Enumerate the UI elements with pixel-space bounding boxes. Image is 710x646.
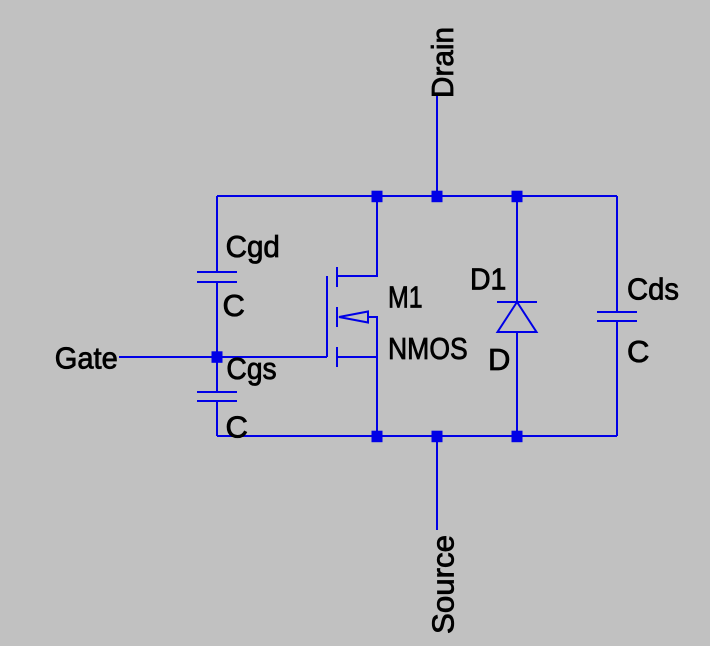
channel segment source	[336, 347, 338, 367]
node bottom rail / diode anode	[512, 431, 523, 443]
wire source port lead	[436, 436, 438, 530]
capacitor Cds	[597, 196, 637, 436]
svg-text:NMOS: NMOS	[388, 331, 468, 366]
source lead	[337, 357, 377, 436]
node top rail / drain port	[432, 191, 443, 203]
node bottom rail / mosfet source	[372, 431, 383, 443]
svg-text:Cgs: Cgs	[226, 351, 276, 386]
wire top rail (drain net)	[217, 195, 617, 197]
upper wire	[616, 196, 618, 312]
body arrow	[339, 312, 368, 323]
svg-text:Gate: Gate	[55, 340, 118, 375]
wire left branch middle: Cgd to Cgs through gate junction	[216, 282, 218, 392]
capacitor Cgs	[197, 392, 237, 401]
wire left branch lower: Cgs to bottom rail	[216, 401, 218, 436]
svg-text:Source: Source	[425, 535, 460, 634]
wire gate lead: Gate label to MOSFET gate bar	[119, 356, 327, 358]
node top rail / diode cathode	[512, 191, 523, 203]
node top rail / mosfet drain	[372, 191, 383, 203]
svg-text:C: C	[226, 410, 248, 445]
svg-text:Cds: Cds	[627, 271, 679, 306]
anode wire to bottom rail	[516, 332, 518, 436]
lower wire	[616, 321, 618, 436]
cathode bar	[497, 301, 537, 303]
svg-text:M1: M1	[388, 280, 423, 315]
diode D1	[497, 196, 537, 436]
wire bottom rail (source net)	[217, 435, 617, 437]
wire left branch upper: top rail to Cgd	[216, 196, 218, 272]
node gate junction	[212, 351, 223, 363]
svg-text:Cgd: Cgd	[226, 229, 280, 264]
body lead	[368, 317, 377, 357]
wire drain port lead	[436, 95, 438, 196]
svg-text:C: C	[627, 334, 649, 369]
drain lead	[337, 196, 377, 276]
channel segment body	[336, 307, 338, 327]
cathode wire from top rail	[516, 196, 518, 302]
capacitor Cgd	[197, 272, 237, 282]
anode triangle	[498, 302, 537, 332]
svg-text:D: D	[488, 342, 510, 377]
svg-text:D1: D1	[470, 262, 506, 297]
channel segment drain	[336, 267, 338, 287]
gate bar	[326, 276, 328, 357]
transistor M1 (NMOS)	[327, 196, 377, 436]
svg-text:C: C	[223, 288, 245, 323]
svg-text:Drain: Drain	[425, 27, 460, 98]
node bottom rail / source port	[432, 431, 443, 443]
